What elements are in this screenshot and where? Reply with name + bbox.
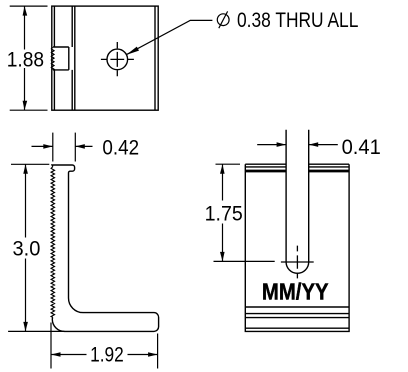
arrowhead 0.42 left [43,144,53,149]
front view bottom band line 4 [245,327,349,329]
arrowhead 3.0 top [23,164,28,174]
svg-text:0.38 THRU ALL: 0.38 THRU ALL [237,9,358,32]
arrowhead 1.75 top [220,164,225,174]
hole circle [107,49,128,70]
arrowhead 1.75 bottom [220,252,225,262]
side view serrated edge [51,167,54,318]
front view [245,130,349,332]
slot [286,130,309,274]
dim 3.0 ext bottom [8,330,64,332]
dim 1.75 ext top [216,163,241,165]
slot centermark horizontal [281,261,314,263]
top view bend line mid1 [71,6,73,110]
svg-text:1.88: 1.88 [7,48,44,71]
top view bend line mid2 [74,6,76,110]
top view notch serrated edge [51,47,54,70]
dim 1.88 ext top [10,5,48,7]
front view outline [245,164,349,331]
side view L outline [51,165,159,331]
arrowhead leader [126,47,139,55]
dim 1.75 line [222,164,224,261]
front view bottom band line 3 [245,317,349,319]
front view bottom band line 1 [245,306,349,308]
top view serrated notch [53,47,69,70]
front view top band line 1 [245,166,349,168]
svg-text:1.92: 1.92 [90,343,124,366]
dim 0.42 ext right [74,133,76,162]
top view bend line left inner [53,6,55,110]
slot centermark vertical [296,246,298,279]
arrowhead 1.88 top [23,6,28,16]
front view top band line 3 [245,171,349,173]
arrowhead 0.41 right [309,142,319,147]
dim 3.0 line [25,164,27,331]
dim 1.88 line [24,6,26,110]
svg-text:MM/YY: MM/YY [262,278,329,304]
dim 0.42 ext left [52,133,54,162]
hole centermark horizontal [101,58,134,60]
svg-text:3.0: 3.0 [13,237,41,260]
dim 1.92 ext left [50,323,52,369]
dim 1.75 ext bottom [214,260,275,262]
arrowhead 3.0 bottom [23,322,28,332]
dim 1.92 line [51,354,158,356]
dim 0.42 arrow tails [32,145,93,147]
arrowhead 1.88 bottom [23,101,28,111]
arrowhead 1.92 left [51,352,61,357]
top view right inner edge line [154,6,156,110]
dim 1.88 ext bottom [10,109,48,111]
svg-text:0.42: 0.42 [102,137,139,160]
dim 3.0 ext top [11,163,49,165]
front view bottom band line 2 [245,313,349,315]
dim 1.92 ext right [157,334,159,369]
dim 0.41 arrow tails [257,144,338,146]
diameter symbol [217,11,229,28]
svg-text:0.41: 0.41 [342,136,381,159]
dimensions [8,6,338,368]
hole centermark vertical [116,42,118,76]
arrowhead 0.41 left [277,142,287,147]
leader line hole callout [126,20,212,54]
front view top band line 2 [245,169,349,171]
arrowhead 0.42 right [75,144,85,149]
top view outline [52,6,158,110]
arrowhead 1.92 right [148,352,158,357]
svg-text:1.75: 1.75 [205,202,243,225]
